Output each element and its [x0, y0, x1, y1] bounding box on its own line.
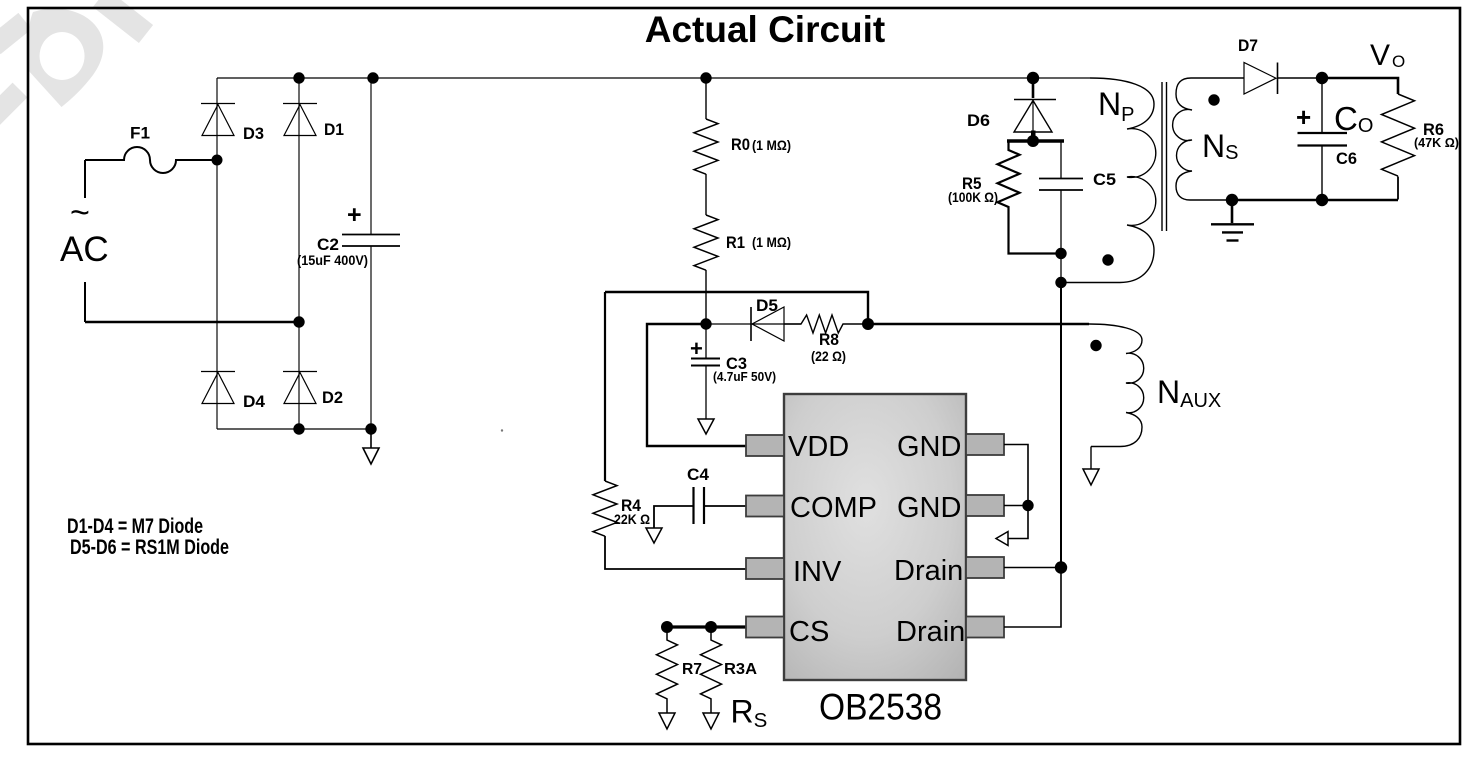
svg-text:GND: GND: [897, 431, 961, 463]
node: drain junction: [1055, 561, 1067, 573]
wire: Drain2 pin loop: [1004, 568, 1061, 628]
svg-text:D5: D5: [756, 296, 778, 315]
transformer core: [1161, 82, 1163, 231]
node: bottom / C2: [365, 423, 376, 434]
svg-text:Actual Circuit: Actual Circuit: [645, 9, 886, 50]
wire: NS top to D7: [1191, 77, 1244, 79]
node: top rail / D6: [1027, 72, 1039, 84]
wire: COMP pin to C4: [704, 505, 746, 507]
ground below C4: [646, 528, 662, 543]
ground below R3A: [703, 713, 719, 729]
node: NS bottom / ground: [1226, 194, 1238, 206]
svg-text:R8: R8: [819, 330, 839, 349]
svg-text:D7: D7: [1238, 36, 1258, 55]
node: CS / R7: [661, 621, 673, 633]
resistor R0: [694, 119, 718, 174]
svg-text:+: +: [347, 201, 362, 229]
svg-text:+: +: [690, 336, 703, 361]
resistor R1: [694, 215, 718, 270]
wire: Drain1 pin: [1004, 567, 1061, 569]
NP phase dot: [1102, 254, 1113, 265]
diode D3: [201, 104, 235, 136]
svg-text:OB2538: OB2538: [819, 687, 942, 728]
wire: R4 column: [604, 292, 606, 481]
node: C6 bottom: [1316, 194, 1328, 206]
winding NS (secondary): [1173, 78, 1232, 200]
svg-text:+: +: [1296, 102, 1311, 132]
wire: feedback loop y=292: [605, 292, 868, 324]
node B: R8 right junction: [862, 318, 874, 330]
stray mark: [501, 429, 503, 431]
capacitor C5: [1060, 141, 1062, 178]
wire: R4 to INV pin: [605, 536, 746, 569]
svg-text:Drain: Drain: [896, 616, 965, 648]
diode D7: [1244, 63, 1276, 95]
pin GND 2: [966, 495, 1004, 516]
AC source: [84, 160, 86, 198]
pin Drain 1: [966, 557, 1004, 578]
svg-text:D4: D4: [243, 392, 266, 411]
winding NP (primary): [1061, 78, 1156, 283]
fuse F1: [85, 147, 217, 173]
svg-text:COMP: COMP: [790, 492, 877, 524]
svg-text:C2: C2: [317, 235, 339, 254]
node: bottom / D2: [293, 423, 304, 434]
NS phase dot: [1208, 94, 1219, 105]
capacitor C3: [705, 324, 707, 358]
diode D2: [283, 372, 317, 404]
svg-text:(100K Ω): (100K Ω): [948, 190, 998, 205]
node: AC return / D1 column: [293, 316, 304, 327]
svg-text:AC: AC: [60, 230, 109, 269]
wire: R6 bottom: [1397, 177, 1399, 200]
svg-text:CS: CS: [789, 616, 829, 648]
wire: R0/R1 column top: [705, 78, 707, 119]
svg-text:C5: C5: [1093, 170, 1116, 189]
node: F1 / D3 column: [212, 155, 223, 166]
wire: to NP bottom node: [1060, 254, 1062, 283]
svg-text:(4.7uF 50V): (4.7uF 50V): [713, 369, 776, 384]
watermark: [27, 9, 103, 107]
ground arrow (left): [996, 532, 1008, 546]
pin CS: [746, 617, 784, 638]
wire: D3/D4 column: [216, 78, 218, 429]
wire: R1 down to VDD node: [705, 270, 707, 324]
svg-text:D6: D6: [967, 111, 990, 130]
diode D6: [1032, 84, 1035, 98]
NAUX phase dot: [1090, 340, 1101, 351]
wire: snubber top bar (thick): [1007, 139, 1064, 142]
svg-text:GND: GND: [897, 492, 961, 524]
svg-text:22K Ω: 22K Ω: [614, 511, 650, 527]
node: snubber top: [1027, 135, 1039, 147]
svg-text:(15uF 400V): (15uF 400V): [297, 253, 368, 268]
wire: to NAUX: [868, 323, 1089, 325]
wire: D1/D2 column: [298, 78, 300, 429]
svg-text:~: ~: [70, 194, 90, 232]
wire: output bottom rail: [1232, 199, 1398, 201]
node A: VDD supply node: [700, 318, 711, 329]
pin COMP: [746, 496, 784, 517]
svg-text:R7: R7: [682, 661, 702, 678]
earth ground below NS: [1231, 200, 1234, 223]
ground below C2: [370, 429, 372, 448]
resistor R8: [784, 315, 868, 333]
svg-text:VDD: VDD: [788, 431, 849, 463]
svg-text:R0: R0: [731, 135, 750, 154]
node: top rail / R0: [700, 72, 711, 83]
svg-text:C4: C4: [687, 465, 710, 484]
svg-text:R1: R1: [726, 233, 745, 252]
pin INV: [746, 558, 784, 579]
resistor R5: [998, 141, 1062, 254]
pin Drain 2: [966, 617, 1004, 638]
wire: main top rail y=78: [217, 77, 1090, 79]
capacitor Co/C6: [1321, 78, 1323, 133]
wire: NAUX to ground: [1090, 447, 1092, 470]
winding NAUX: [1089, 324, 1144, 447]
node: snubber bottom: [1055, 248, 1066, 259]
wire: AC bottom return: [85, 321, 299, 324]
resistor R3A: [701, 627, 722, 713]
svg-text:Drain: Drain: [894, 555, 963, 587]
svg-text:C6: C6: [1336, 149, 1357, 168]
wire: bridge bottom y=429: [217, 428, 371, 430]
svg-text:D3: D3: [243, 124, 264, 143]
wire: GND1 pin loop: [1004, 445, 1028, 506]
node: top rail / D1: [293, 72, 304, 83]
pin GND 1: [966, 434, 1004, 455]
node: top rail / C2: [367, 72, 378, 83]
wire: CS pin: [667, 625, 746, 628]
wire: drain vertical to NP bottom: [1060, 283, 1062, 568]
resistor R6: [1382, 94, 1415, 176]
wire: GND2 pin: [1004, 505, 1028, 507]
diode D4: [201, 372, 235, 404]
resistor R4: [593, 481, 617, 536]
svg-text:D2: D2: [322, 388, 343, 407]
wire: GND down to arrow: [1008, 506, 1028, 539]
resistor R7: [657, 627, 678, 713]
capacitor C2: [370, 78, 372, 234]
svg-text:D1-D4 = M7 Diode: D1-D4 = M7 Diode: [67, 515, 203, 538]
node: GND junction: [1022, 500, 1033, 511]
node: NP bottom: [1055, 277, 1066, 288]
wire: between R0 and R1: [705, 174, 707, 215]
pin VDD: [746, 435, 784, 456]
wire: Vo to R6 (thick): [1322, 78, 1398, 94]
svg-text:INV: INV: [793, 556, 842, 588]
svg-text:(1 MΩ): (1 MΩ): [752, 137, 791, 153]
wire: D7 to Vo node: [1278, 77, 1323, 79]
svg-text:R3A: R3A: [724, 661, 757, 678]
ground below C3: [698, 419, 714, 434]
node: CS / R3A: [705, 621, 717, 633]
ground below R7: [659, 713, 675, 729]
wire: VDD node to VDD pin: [647, 324, 746, 446]
ground below NAUX: [1083, 469, 1099, 485]
node: Vo: [1316, 72, 1328, 84]
svg-text:(1 MΩ): (1 MΩ): [752, 234, 791, 250]
svg-text:F1: F1: [130, 124, 150, 143]
svg-text:(22 Ω): (22 Ω): [811, 348, 846, 364]
svg-text:(47K Ω): (47K Ω): [1414, 135, 1459, 150]
diode D1: [283, 104, 317, 136]
svg-text:D1: D1: [324, 120, 344, 139]
diode D5: [706, 323, 801, 325]
op-amp U1 : controller IC OB2538 body: [784, 394, 966, 680]
svg-text:D5-D6 = RS1M Diode: D5-D6 = RS1M Diode: [70, 536, 229, 559]
